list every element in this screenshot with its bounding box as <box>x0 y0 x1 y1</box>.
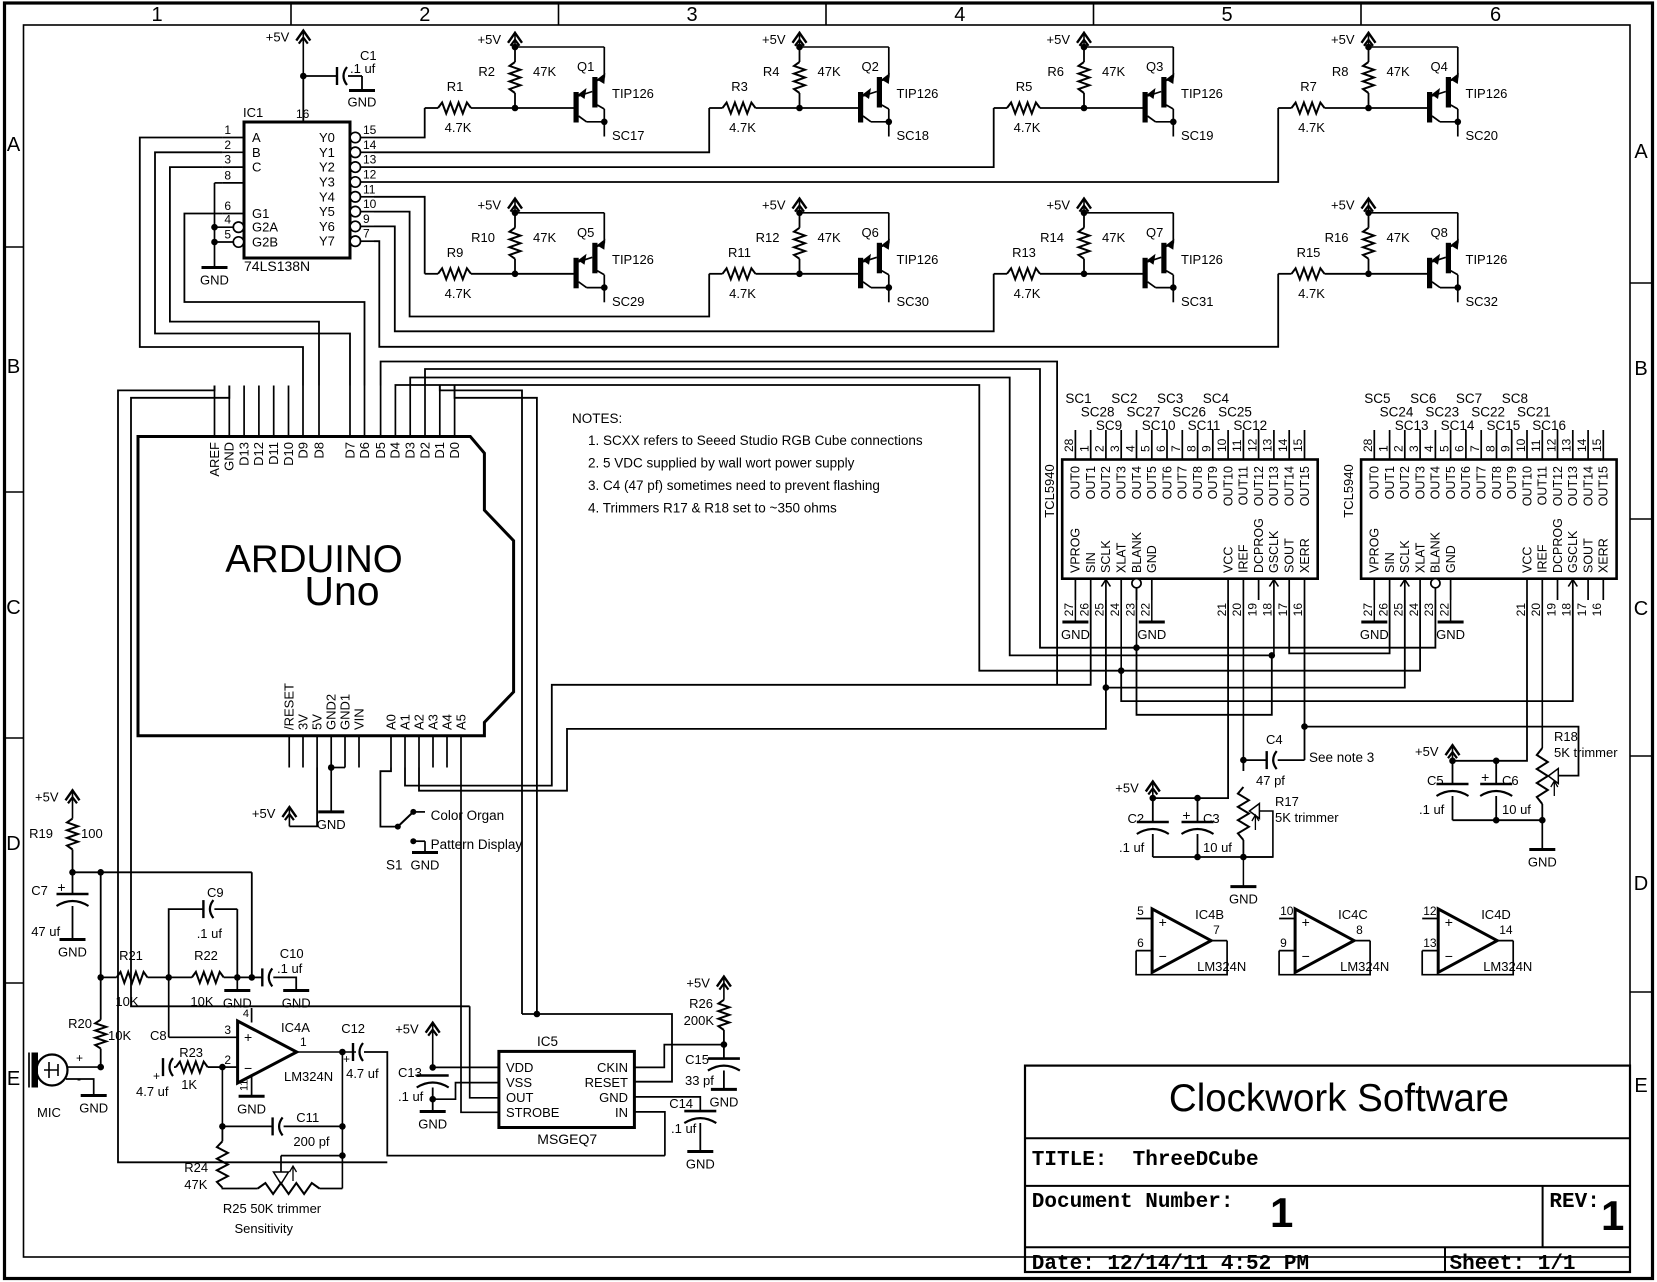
svg-text:XERR: XERR <box>1597 538 1611 573</box>
svg-text:12: 12 <box>363 168 377 182</box>
svg-text:10: 10 <box>1514 438 1528 452</box>
svg-text:Y6: Y6 <box>319 219 335 234</box>
Arduino top pin AREF <box>207 386 222 477</box>
svg-text:+: + <box>1159 914 1167 930</box>
transistor Q5 TIP126 driver cell with resistors R9 4.7K and R10 47K, output net SC29 <box>425 198 654 309</box>
wire XERR C4 R18 wiper net <box>1301 600 1578 776</box>
TCL5940 #2 top pin 2 OUT2 <box>1392 430 1413 499</box>
svg-text:AREF: AREF <box>207 442 222 477</box>
svg-text:5: 5 <box>1221 4 1232 26</box>
svg-text:TCL5940: TCL5940 <box>1341 464 1356 517</box>
svg-text:SCLK: SCLK <box>1398 540 1412 573</box>
resistor R26 200K <box>684 996 730 1045</box>
op-amp IC4D LM324N voltage follower <box>1422 904 1532 975</box>
svg-text:TITLE: ThreeDCube: TITLE: ThreeDCube <box>1032 1149 1259 1172</box>
Arduino top pin D2 <box>417 386 432 459</box>
TCL5940 #2 bottom pin 27 VPROG <box>1361 528 1382 617</box>
svg-text:47K: 47K <box>818 64 841 79</box>
svg-text:LM324N: LM324N <box>1483 959 1532 974</box>
svg-text:47K: 47K <box>1102 230 1125 245</box>
svg-text:+: + <box>1182 807 1190 823</box>
svg-text:D: D <box>6 833 20 855</box>
svg-text:A2: A2 <box>411 714 426 730</box>
IC1 output pin 12 (Y3) with inversion bubble <box>319 168 377 190</box>
wire IC5 VSS to ground node <box>433 1083 499 1100</box>
svg-text:C14: C14 <box>669 1096 693 1111</box>
TCL5940 #1 top pin 11 OUT11 <box>1230 430 1251 505</box>
svg-text:GND: GND <box>348 95 377 110</box>
svg-text:R9: R9 <box>447 245 464 260</box>
svg-text:16: 16 <box>1590 603 1604 617</box>
svg-text:11: 11 <box>1529 439 1543 452</box>
svg-text:C6: C6 <box>1502 773 1519 788</box>
svg-text:GND: GND <box>1145 545 1159 573</box>
capacitor C3 10 uf polarized <box>1182 798 1233 860</box>
svg-text:16: 16 <box>296 107 310 121</box>
svg-text:17: 17 <box>1575 603 1589 617</box>
ground symbol for IC4A pin 11 <box>237 1096 266 1116</box>
svg-text:D7: D7 <box>342 442 357 459</box>
svg-text:SOUT: SOUT <box>1581 538 1595 573</box>
wire IC5 OUT riser <box>470 1006 499 1098</box>
svg-text:OUT8: OUT8 <box>1191 466 1205 499</box>
svg-text:LM324N: LM324N <box>1197 959 1246 974</box>
svg-text:4.7K: 4.7K <box>1298 286 1325 301</box>
svg-text:+5V: +5V <box>478 198 502 213</box>
power pin 16 of IC1 with +5V symbol <box>266 30 311 122</box>
svg-text:SC29: SC29 <box>612 294 645 309</box>
svg-text:11: 11 <box>239 1080 251 1091</box>
TCL5940 #1 bottom pin 18 GSCLK <box>1261 530 1282 616</box>
Arduino top pin D7 <box>342 386 357 459</box>
svg-text:+5V: +5V <box>35 789 59 804</box>
wire IC4A inverting node to feedback <box>219 1067 226 1130</box>
svg-text:C3: C3 <box>1203 811 1220 826</box>
svg-text:BLANK: BLANK <box>1130 531 1144 573</box>
resistor R20 10K <box>68 1016 131 1070</box>
wire Y6 to R13 <box>374 226 994 331</box>
svg-text:2: 2 <box>1093 445 1107 452</box>
svg-text:GND: GND <box>599 1090 628 1105</box>
svg-text:OUT10: OUT10 <box>1520 466 1534 506</box>
svg-text:GND: GND <box>1137 627 1166 642</box>
wire net C from IC1 pin3 to Arduino D8 <box>170 167 319 385</box>
capacitor C8 4.7 uf coupling <box>136 1028 176 1099</box>
svg-text:OUT14: OUT14 <box>1581 466 1595 506</box>
wire left loop to Arduino GND pin <box>131 386 470 1007</box>
svg-text:7: 7 <box>1468 445 1482 452</box>
svg-text:1: 1 <box>1601 1192 1624 1239</box>
svg-text:9: 9 <box>363 212 370 226</box>
Arduino bottom pin /RESET <box>282 683 297 768</box>
svg-text:7: 7 <box>363 227 370 241</box>
svg-text:SC30: SC30 <box>897 294 930 309</box>
svg-text:GND: GND <box>1436 627 1465 642</box>
TCL5940 #2 bottom pin 19 DCPROG <box>1544 518 1565 616</box>
svg-text:47K: 47K <box>184 1177 207 1192</box>
svg-text:9: 9 <box>1499 445 1513 452</box>
svg-text:7: 7 <box>1169 445 1183 452</box>
svg-text:OUT1: OUT1 <box>1084 466 1098 499</box>
svg-text:10: 10 <box>1280 904 1294 918</box>
svg-text:See note 3: See note 3 <box>1309 750 1374 765</box>
svg-text:SC9: SC9 <box>1096 418 1122 433</box>
svg-text:B: B <box>252 145 261 160</box>
capacitor C1 .1 uf bypass <box>303 48 376 89</box>
svg-text:5: 5 <box>1437 445 1451 452</box>
TCL5940 #1 top pin 5 OUT5 <box>1139 430 1160 499</box>
title block <box>1025 1066 1630 1276</box>
svg-text:22: 22 <box>1139 603 1153 617</box>
resistor R18 5K trimmer <box>1537 600 1618 824</box>
svg-text:+5V: +5V <box>1415 744 1439 759</box>
wire net B from IC1 pin2 to Arduino D7 <box>155 152 350 385</box>
svg-text:200 pf: 200 pf <box>293 1134 330 1149</box>
svg-text:Q5: Q5 <box>577 225 594 240</box>
svg-text:14: 14 <box>363 138 377 152</box>
wire bottom rail of C2 C3 R17 <box>1153 856 1273 858</box>
svg-text:C: C <box>6 597 20 619</box>
svg-text:TIP126: TIP126 <box>612 252 654 267</box>
svg-text:+5V: +5V <box>395 1022 419 1037</box>
svg-text:XERR: XERR <box>1298 538 1312 573</box>
IC IC5 MSGEQ7 spectrum analyzer <box>499 1034 635 1147</box>
TCL5940 #1 top pin 12 OUT12 <box>1245 430 1266 506</box>
Arduino bottom pin A1 <box>397 714 412 767</box>
TCL5940 #2 top pin 7 OUT7 <box>1468 430 1489 499</box>
svg-text:R1: R1 <box>447 79 464 94</box>
Arduino top pin GND <box>222 386 237 471</box>
svg-text:47 pf: 47 pf <box>1256 773 1285 788</box>
svg-text:3. C4 (47 pf) sometimes need t: 3. C4 (47 pf) sometimes need to prevent … <box>588 478 880 493</box>
wire +5V rail to TLC2 VCC pin 21 <box>1453 600 1528 764</box>
svg-text:XLAT: XLAT <box>1115 542 1129 573</box>
svg-text:TIP126: TIP126 <box>897 252 939 267</box>
svg-text:4.7K: 4.7K <box>729 286 756 301</box>
svg-text:TIP126: TIP126 <box>897 86 939 101</box>
svg-text:18: 18 <box>1560 603 1574 617</box>
svg-text:LM324N: LM324N <box>1340 959 1389 974</box>
svg-text:Q3: Q3 <box>1146 59 1163 74</box>
+5V symbol for IC5 VDD <box>395 1022 499 1071</box>
wire net A from IC1 pin1 to Arduino D9 <box>140 138 303 386</box>
wire IC5 CKIN to clock RC <box>634 1041 727 1067</box>
wire mic bias rail <box>73 869 256 1020</box>
svg-text:GND: GND <box>1229 892 1258 907</box>
Arduino top pin D13 <box>236 386 251 466</box>
svg-text:6: 6 <box>1490 4 1501 26</box>
svg-text:R2: R2 <box>478 64 495 79</box>
svg-text:R16: R16 <box>1325 230 1349 245</box>
capacitor C11 200 pf <box>222 1110 342 1149</box>
svg-text:D1: D1 <box>432 442 447 459</box>
svg-text:+5V: +5V <box>1331 32 1355 47</box>
svg-text:1: 1 <box>151 4 162 26</box>
capacitor C6 10 uf polarized <box>1480 761 1531 824</box>
capacitor C14 .1 uf <box>669 1096 716 1151</box>
wire Y4 to R9 <box>374 197 425 274</box>
svg-text:G2B: G2B <box>252 235 278 250</box>
svg-text:R25 50K trimmer: R25 50K trimmer <box>223 1201 322 1216</box>
svg-text:27: 27 <box>1361 603 1375 617</box>
svg-text:C13: C13 <box>398 1065 422 1080</box>
svg-text:13: 13 <box>1560 438 1574 452</box>
svg-text:OUT11: OUT11 <box>1237 466 1251 505</box>
svg-text:TIP126: TIP126 <box>612 86 654 101</box>
TCL5940 #1 top pin 7 OUT7 <box>1169 430 1190 499</box>
svg-text:100: 100 <box>81 826 103 841</box>
svg-text:NOTES:: NOTES: <box>572 411 622 426</box>
svg-text:D9: D9 <box>295 442 310 459</box>
ground symbol for S1 <box>411 853 440 873</box>
svg-text:OUT11: OUT11 <box>1536 466 1550 505</box>
wire Y2 to R5 <box>374 108 994 167</box>
svg-text:14: 14 <box>1575 438 1589 452</box>
svg-text:G2A: G2A <box>252 220 278 235</box>
svg-text:5: 5 <box>1139 445 1153 452</box>
svg-text:SC32: SC32 <box>1466 294 1499 309</box>
svg-text:OUT3: OUT3 <box>1115 466 1129 499</box>
svg-text:IC4D: IC4D <box>1481 907 1511 922</box>
svg-text:33 pf: 33 pf <box>685 1073 714 1088</box>
svg-text:OUT8: OUT8 <box>1490 466 1504 499</box>
resistor R21 10K <box>101 948 172 1009</box>
svg-text:−: − <box>1445 948 1453 964</box>
svg-text:27: 27 <box>1062 603 1076 617</box>
wire Y5 to R11 <box>374 212 709 317</box>
op-amp IC4A LM324N <box>169 977 333 1096</box>
svg-text:47 uf: 47 uf <box>31 924 60 939</box>
svg-text:D12: D12 <box>251 442 266 466</box>
svg-text:R15: R15 <box>1297 245 1321 260</box>
svg-text:Q4: Q4 <box>1431 59 1448 74</box>
svg-text:SC20: SC20 <box>1466 128 1499 143</box>
svg-text:−: − <box>1302 948 1310 964</box>
TCL5940 #1 bottom pin 24 XLAT <box>1108 542 1129 616</box>
svg-text:C7: C7 <box>31 883 48 898</box>
TCL5940 #1 top pin 10 OUT10 <box>1215 430 1236 506</box>
resistor R25 50K trimmer sensitivity <box>223 1156 343 1236</box>
IC1 pin 3 (C) <box>222 153 261 175</box>
svg-text:Y7: Y7 <box>319 234 335 249</box>
svg-text:GND: GND <box>317 817 346 832</box>
svg-text:1K: 1K <box>181 1077 197 1092</box>
svg-text:1: 1 <box>224 123 231 137</box>
svg-text:10 uf: 10 uf <box>1203 840 1232 855</box>
+5V symbol for TLC1 VCC <box>1115 781 1160 802</box>
transistor Q7 TIP126 driver cell with resistors R13 4.7K and R14 47K, output net SC31 <box>994 198 1223 309</box>
svg-text:VCC: VCC <box>1221 547 1235 573</box>
svg-text:21: 21 <box>1215 603 1229 617</box>
svg-text:SC15: SC15 <box>1487 418 1521 433</box>
svg-text:DCPROG: DCPROG <box>1551 518 1565 573</box>
svg-text:OUT15: OUT15 <box>1298 466 1312 506</box>
TCL5940 #1 bottom pin 17 SOUT <box>1276 538 1297 616</box>
svg-text:OUT4: OUT4 <box>1130 466 1144 499</box>
svg-text:R22: R22 <box>194 948 218 963</box>
capacitor C12 4.7 uf polarized <box>341 1021 665 1156</box>
ground symbol TLC2 VPROG pin 27 <box>1360 600 1389 642</box>
svg-text:SC11: SC11 <box>1188 418 1221 433</box>
svg-text:8: 8 <box>224 168 231 182</box>
IC1 pin 5 (G2B) <box>215 228 279 250</box>
svg-text:6: 6 <box>1154 445 1168 452</box>
svg-text:3: 3 <box>224 153 231 167</box>
svg-text:−: − <box>1159 948 1167 964</box>
Arduino bottom pin A5 <box>453 714 468 767</box>
svg-text:+5V: +5V <box>762 32 786 47</box>
svg-text:3: 3 <box>686 4 697 26</box>
svg-text:12: 12 <box>1423 904 1437 918</box>
svg-text:+: + <box>76 1051 83 1065</box>
svg-text:+: + <box>1481 769 1489 785</box>
TCL5940 #1 bottom pin 21 VCC <box>1215 547 1236 617</box>
svg-text:SC14: SC14 <box>1441 418 1475 433</box>
TCL5940 #2 top pin 10 OUT10 <box>1514 430 1535 506</box>
svg-text:Date: 12/14/11 4:52 PM: Date: 12/14/11 4:52 PM <box>1032 1253 1309 1276</box>
svg-text:Clockwork Software: Clockwork Software <box>1169 1077 1509 1120</box>
svg-text:10: 10 <box>1215 438 1229 452</box>
wire Arduino D1 to MSGEQ7 region <box>440 386 522 1015</box>
svg-text:SCLK: SCLK <box>1099 540 1113 573</box>
IC TCL5940 LED driver #1 <box>1042 460 1318 579</box>
svg-text:C15: C15 <box>685 1052 709 1067</box>
svg-text:E: E <box>1634 1075 1647 1097</box>
svg-text:GND: GND <box>686 1157 715 1172</box>
wire left loop to Arduino AREF <box>118 386 387 1163</box>
svg-text:IREF: IREF <box>1237 544 1251 573</box>
svg-text:28: 28 <box>1361 438 1375 452</box>
svg-text:TCL5940: TCL5940 <box>1042 464 1057 517</box>
Arduino top pin D10 <box>281 386 296 466</box>
svg-text:Document Number:: Document Number: <box>1032 1191 1234 1214</box>
IC TCL5940 LED driver #2 <box>1341 460 1617 579</box>
Arduino top pin D11 <box>266 386 281 465</box>
svg-text:47K: 47K <box>533 64 556 79</box>
TCL5940 #2 top pin 3 OUT3 <box>1407 430 1428 499</box>
svg-text:SC12: SC12 <box>1233 418 1267 433</box>
capacitor C10 .1 uf <box>252 946 304 991</box>
Arduino top pin D4 <box>388 386 403 459</box>
TCL5940 #2 top pin 4 OUT4 <box>1422 430 1443 499</box>
svg-text:+5V: +5V <box>478 32 502 47</box>
svg-text:SC18: SC18 <box>897 128 930 143</box>
svg-text:C2: C2 <box>1128 811 1145 826</box>
svg-text:VPROG: VPROG <box>1368 528 1382 573</box>
svg-text:Y0: Y0 <box>319 130 335 145</box>
svg-text:GND: GND <box>282 996 311 1011</box>
ground symbol under R18 <box>1528 820 1557 869</box>
IC1 pins 8, G2A, G2B tied to ground <box>211 183 222 266</box>
svg-text:A1: A1 <box>397 714 412 730</box>
svg-text:.1 uf: .1 uf <box>1419 802 1445 817</box>
TCL5940 #1 top pin 9 OUT9 <box>1200 430 1221 499</box>
svg-text:C: C <box>1634 598 1648 620</box>
TCL5940 #2 top pin 15 OUT15 <box>1590 430 1611 506</box>
IC Arduino Uno module block <box>138 437 514 736</box>
svg-text:SC16: SC16 <box>1532 418 1566 433</box>
IC1 pin 6 (G1) <box>222 199 269 221</box>
capacitor C4 47 pf <box>1243 727 1374 788</box>
svg-text:+: + <box>1445 914 1453 930</box>
TCL5940 #1 top pin 2 OUT2 <box>1093 430 1114 499</box>
Arduino top pin D9 <box>295 386 310 459</box>
ground symbol under R17 <box>1229 857 1258 907</box>
svg-text:/RESET: /RESET <box>282 683 297 730</box>
svg-text:IC5: IC5 <box>537 1034 558 1049</box>
svg-text:C12: C12 <box>341 1021 365 1036</box>
svg-text:C8: C8 <box>150 1028 167 1043</box>
svg-text:10: 10 <box>363 197 377 211</box>
wire TLC1 IREF pin 20 down to R17 <box>1240 600 1247 763</box>
svg-text:GND: GND <box>411 858 440 873</box>
svg-text:.1 uf: .1 uf <box>1119 840 1145 855</box>
ground symbol under C14 <box>686 1152 715 1172</box>
svg-text:GND: GND <box>200 273 229 288</box>
TCL5940 #1 top pin 15 OUT15 <box>1291 430 1312 506</box>
svg-text:SC31: SC31 <box>1181 294 1214 309</box>
capacitor C5 .1 uf <box>1419 761 1469 820</box>
svg-text:2: 2 <box>224 138 231 152</box>
ground symbol under C15 <box>709 1089 738 1109</box>
svg-text:18: 18 <box>1261 603 1275 617</box>
svg-text:IN: IN <box>615 1105 628 1120</box>
svg-text:R14: R14 <box>1040 230 1064 245</box>
svg-text:OUT2: OUT2 <box>1099 466 1113 499</box>
svg-text:OUT4: OUT4 <box>1429 466 1443 499</box>
ground symbol under C10 <box>282 991 311 1011</box>
svg-text:TIP126: TIP126 <box>1466 86 1508 101</box>
svg-text:Y1: Y1 <box>319 145 335 160</box>
svg-text:Y2: Y2 <box>319 160 335 175</box>
svg-text:Y5: Y5 <box>319 204 335 219</box>
ground symbol for C1 <box>348 91 377 110</box>
svg-text:+5V: +5V <box>1331 198 1355 213</box>
Arduino top pin D6 <box>357 386 372 459</box>
ground symbol for mic return <box>66 1079 108 1116</box>
svg-text:OUT15: OUT15 <box>1597 466 1611 506</box>
svg-text:OUT9: OUT9 <box>1505 466 1519 499</box>
TCL5940 #1 top pin 13 OUT13 <box>1261 430 1282 506</box>
svg-text:8: 8 <box>1483 445 1497 452</box>
wire Y3 to R7 <box>374 108 1278 182</box>
svg-text:6: 6 <box>1137 936 1144 950</box>
svg-text:19: 19 <box>1544 603 1558 617</box>
svg-text:6: 6 <box>224 199 231 213</box>
svg-text:D6: D6 <box>357 442 372 459</box>
svg-text:19: 19 <box>1245 603 1259 617</box>
Arduino top pin D0 <box>447 386 462 459</box>
wire SCLK bus to both TLC chips <box>419 600 1405 791</box>
svg-text:IC4C: IC4C <box>1338 907 1368 922</box>
svg-text:20: 20 <box>1529 603 1543 617</box>
TCL5940 #2 bottom pin 17 SOUT <box>1575 538 1596 616</box>
capacitor C2 .1 uf <box>1119 798 1169 857</box>
resistor R19 100 <box>29 819 103 876</box>
svg-text:D5: D5 <box>373 442 388 459</box>
svg-text:28: 28 <box>1062 438 1076 452</box>
svg-text:13: 13 <box>1423 936 1437 950</box>
TCL5940 #2 bottom pin 25 SCLK <box>1392 540 1413 617</box>
TCL5940 #2 top pin 1 OUT1 <box>1376 430 1397 499</box>
svg-text:4.7K: 4.7K <box>1298 120 1325 135</box>
TCL5940 #1 top pin 1 OUT1 <box>1078 430 1099 499</box>
IC1 output pin 13 (Y2) with inversion bubble <box>319 153 377 175</box>
svg-text:SC10: SC10 <box>1142 418 1176 433</box>
svg-text:26: 26 <box>1078 603 1092 617</box>
svg-text:R26: R26 <box>689 996 713 1011</box>
transistor Q3 TIP126 driver cell with resistors R5 4.7K and R6 47K, output net SC19 <box>994 32 1223 143</box>
